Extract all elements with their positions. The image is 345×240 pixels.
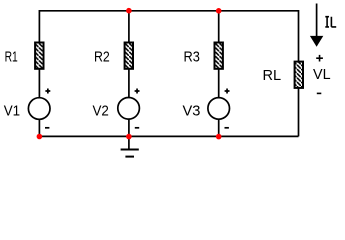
svg-text:R2: R2	[94, 49, 110, 66]
svg-text:R1: R1	[5, 48, 18, 65]
svg-text:V3: V3	[183, 102, 201, 119]
svg-text:VL: VL	[313, 66, 331, 83]
svg-text:RL: RL	[263, 67, 282, 84]
svg-text:V1: V1	[4, 103, 20, 120]
svg-text:V2: V2	[93, 102, 109, 119]
svg-text:R3: R3	[184, 49, 200, 66]
